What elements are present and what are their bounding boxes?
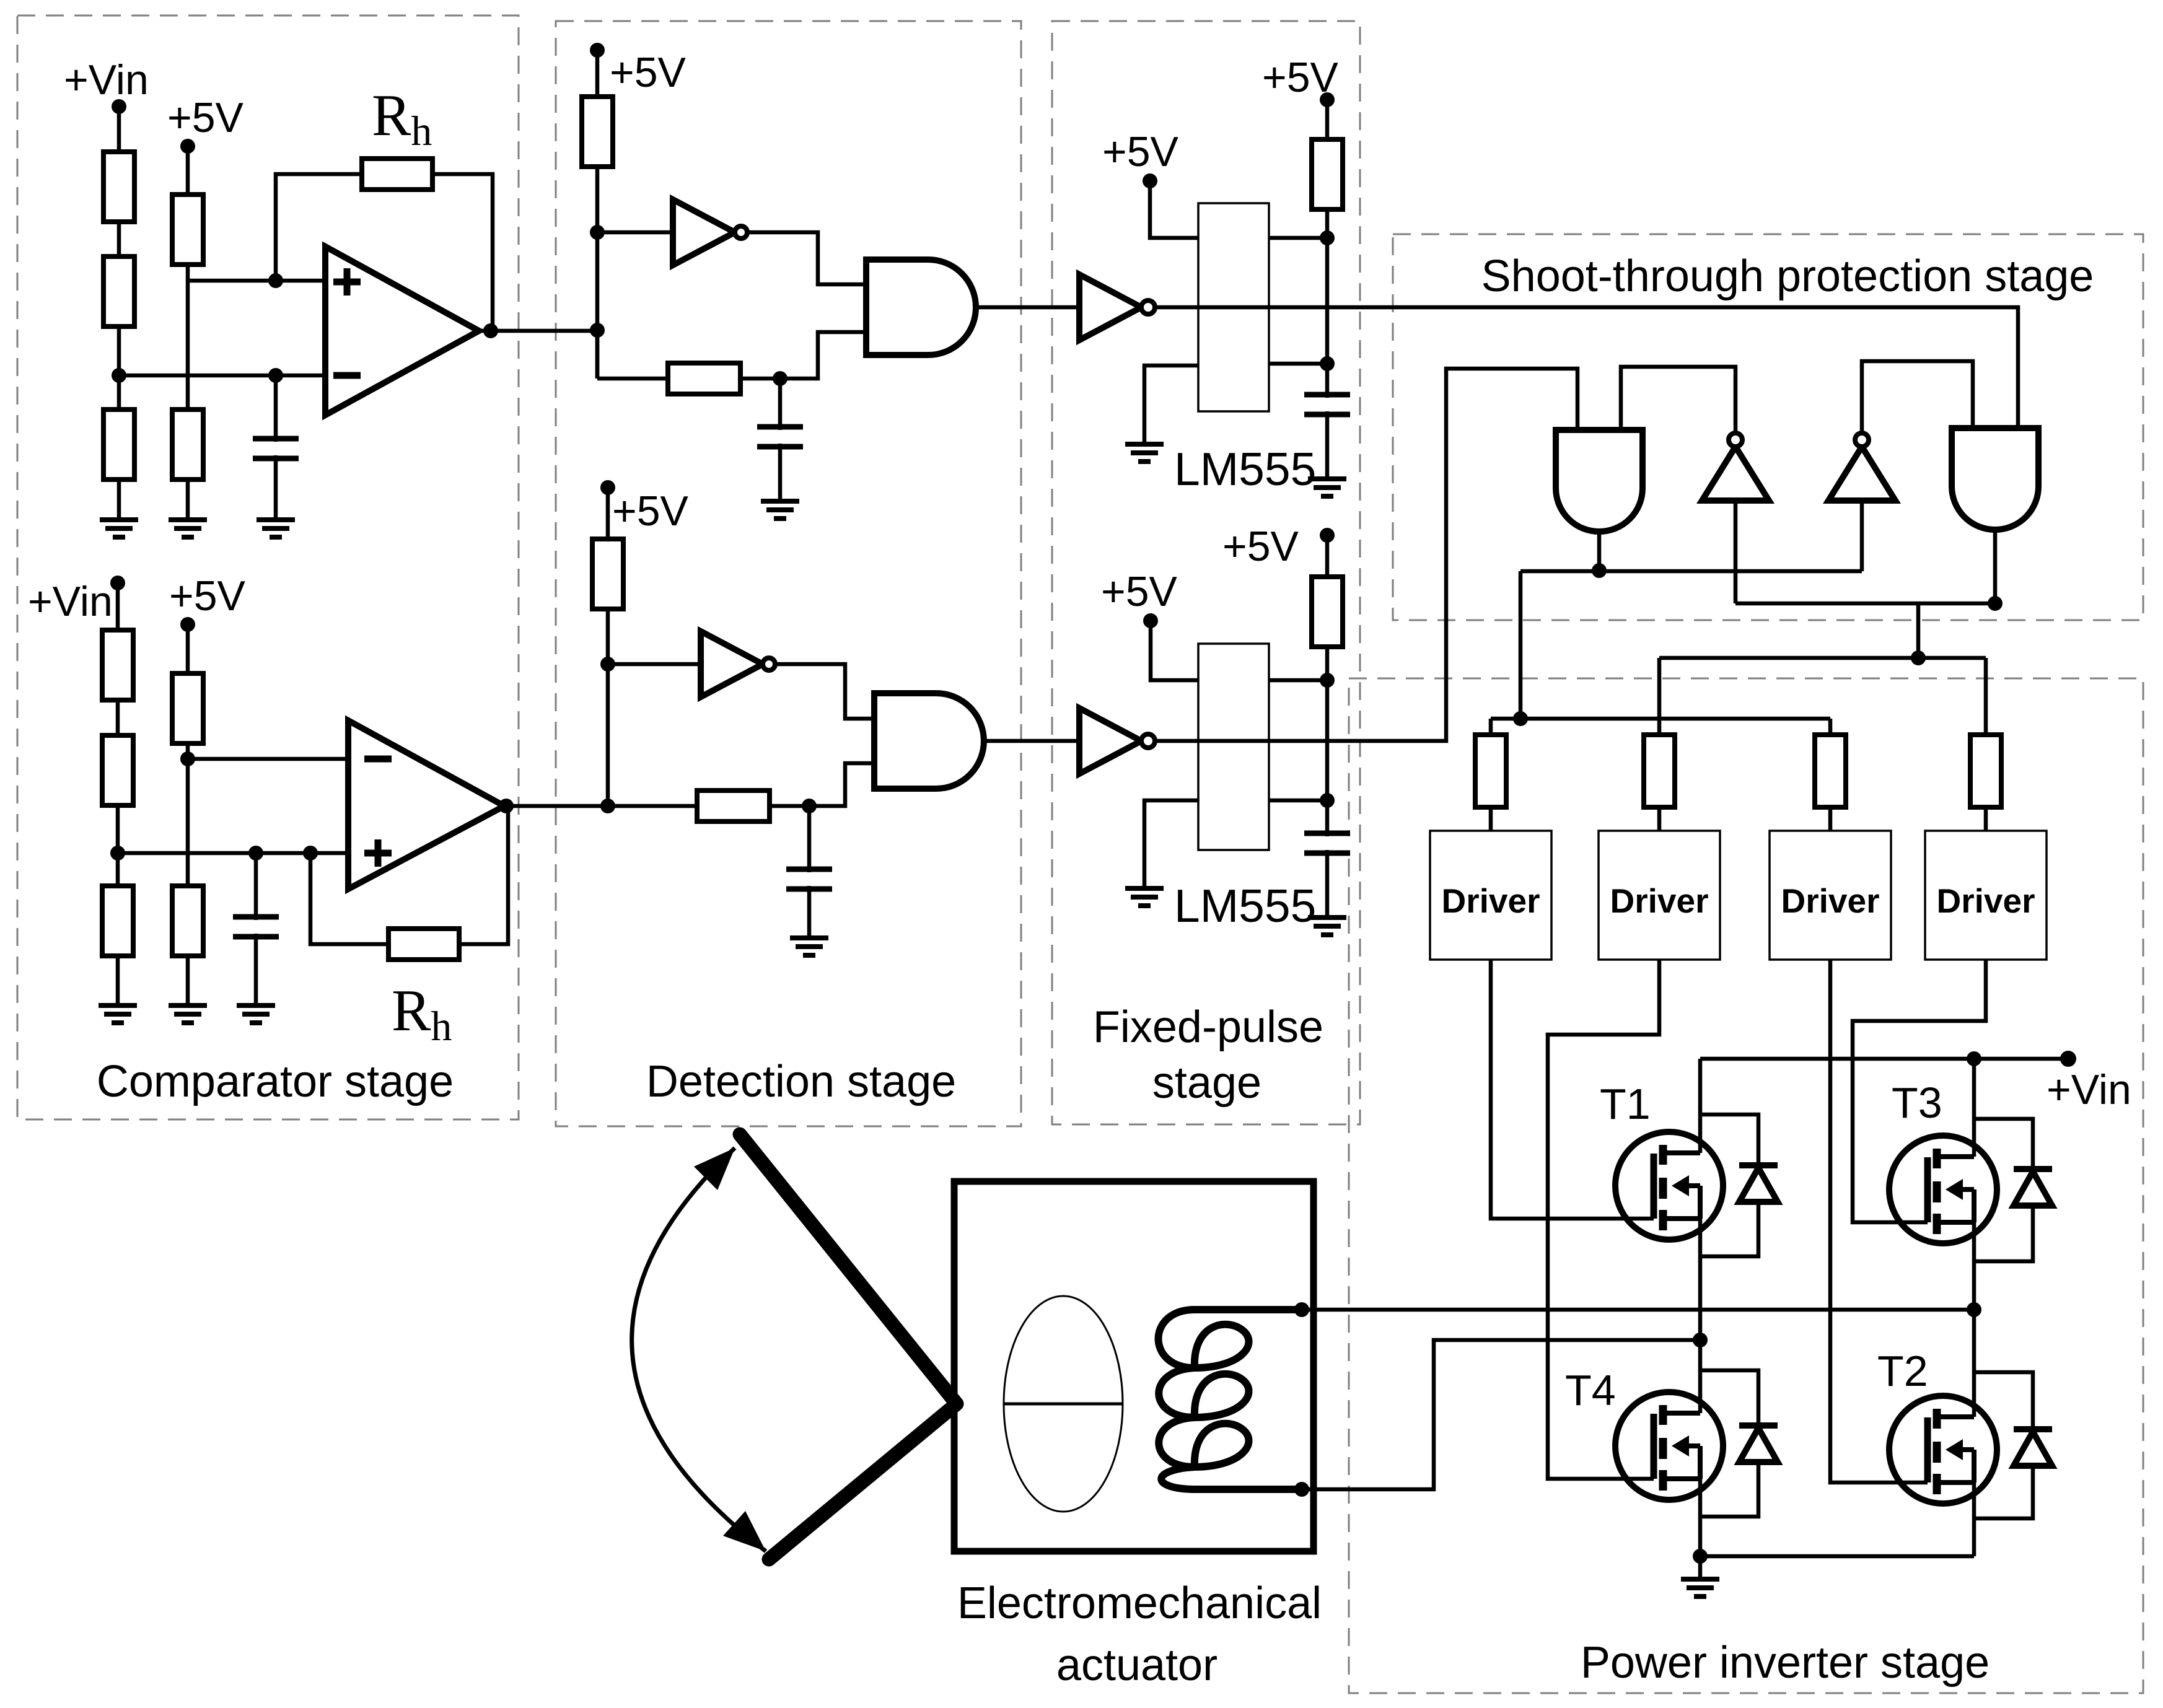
wire U2 output to detection stage	[499, 799, 608, 813]
capacitor (LM555 ch1 timing)	[1301, 398, 1354, 411]
ground (C1)	[257, 520, 295, 537]
wire +Vin rail	[1700, 1051, 2076, 1067]
driver 3 box	[1770, 831, 1891, 960]
diode (T3 body)	[1974, 1119, 2052, 1261]
AND gate 2 (shoot-through)	[1952, 428, 2038, 530]
arrowhead top	[694, 1148, 735, 1190]
svg-text:LM555: LM555	[1174, 443, 1316, 495]
diode (T2 body)	[1974, 1372, 2052, 1518]
shoot-through protection stage dashed box	[1393, 234, 2143, 620]
wire A actuator to T3/T2 midpoint	[1302, 1308, 1974, 1312]
resistor R3	[103, 409, 134, 480]
resistor (LM555 ch2 timing)	[1312, 577, 1343, 647]
ground (R8 chain)	[99, 1005, 137, 1023]
wire U1 output to detection stage	[479, 323, 597, 338]
resistor Rh (ch1)	[362, 159, 432, 190]
wire capacitor branch (detection ch1)	[778, 379, 783, 501]
diode (T1 body)	[1700, 1115, 1778, 1256]
wire op-amp U2 inverting input	[180, 751, 348, 766]
wire inverter out to AND upper input (ch2)	[775, 664, 874, 719]
resistor (driver 4 gate)	[1970, 735, 2001, 807]
svg-text:Driver: Driver	[1442, 882, 1540, 920]
svg-text:+5V: +5V	[169, 572, 246, 620]
wire +Vin divider chain (ch2)	[116, 583, 120, 1005]
detection stage dashed box	[556, 21, 1021, 1126]
node +5V (comparator ch2)	[169, 572, 246, 632]
node +5V (detection ch2)	[600, 480, 689, 535]
op-amp U2	[348, 720, 504, 889]
inverter (fixed-pulse ch1)	[1079, 274, 1155, 340]
svg-text:+5V: +5V	[1101, 568, 1178, 615]
svg-text:+5V: +5V	[1262, 54, 1339, 101]
ground (R10 chain)	[169, 1005, 207, 1023]
coil terminal dots	[1294, 1302, 1309, 1497]
wire inverter2 output to AND2 left input	[1862, 361, 1973, 432]
driver 1 box	[1430, 831, 1551, 960]
resistor R9	[172, 673, 203, 743]
wire buffer input (ch1)	[597, 230, 673, 235]
wire +5V pull-up (detection ch2)	[600, 488, 615, 813]
node +Vin (comparator ch1)	[64, 56, 149, 114]
inverter 1 (shoot-through, up)	[1702, 433, 1769, 501]
svg-text:Power inverter stage: Power inverter stage	[1581, 1638, 1990, 1688]
node +Vin (comparator ch2)	[28, 576, 125, 625]
resistor R6	[102, 630, 133, 700]
ground (detection ch2)	[790, 938, 828, 955]
wire +5V to LM555 pin (ch1)	[1150, 181, 1198, 238]
svg-text:actuator: actuator	[1056, 1640, 1218, 1690]
svg-text:LM555: LM555	[1174, 880, 1316, 932]
wire T1 source to T4 drain	[1693, 1219, 1708, 1413]
resistor (detection pull-up ch1)	[582, 97, 613, 167]
capacitor C2	[229, 920, 283, 934]
wire B actuator to T1/T4 midpoint	[1302, 1340, 1700, 1489]
wire T3 source to T2 drain	[1967, 1222, 1981, 1417]
svg-text:+5V: +5V	[167, 94, 244, 141]
wire AND1 output node to inverter2 input and gate drives 1,3	[1491, 501, 1862, 831]
svg-text:+5V: +5V	[1222, 523, 1299, 570]
node +5V (LM555 ch2 Vcc)	[1101, 568, 1178, 628]
LM555 ch2 box	[1198, 644, 1269, 850]
svg-text:+5V: +5V	[1102, 128, 1179, 175]
resistor R10	[172, 886, 203, 956]
resistor R1	[103, 152, 134, 222]
comparator stage dashed box	[17, 15, 519, 1119]
wire hysteresis feedback (ch2)	[310, 806, 508, 944]
transistor T4	[1565, 1366, 1723, 1500]
node +5V (detection ch1)	[590, 43, 687, 96]
capacitor C1	[249, 442, 302, 455]
inverter (detection ch1)	[673, 199, 747, 265]
svg-text:Driver: Driver	[1937, 882, 2035, 920]
wire filter capacitor branch (ch2)	[254, 853, 258, 1005]
diode (T4 body)	[1700, 1370, 1778, 1517]
AND gate (detection ch2)	[874, 693, 984, 789]
capacitor (detection ch1)	[753, 430, 807, 444]
resistor Rh (ch2)	[388, 929, 459, 960]
svg-text:Fixed-pulse: Fixed-pulse	[1093, 1002, 1323, 1052]
wire buffer input (ch2)	[608, 662, 701, 667]
ground (LM555 ch1 timing)	[1308, 479, 1346, 496]
wire T3 drain	[1972, 1059, 1977, 1157]
rotor ellipse	[1004, 1296, 1123, 1512]
wire driver2 output to T4 gate	[1548, 960, 1659, 1479]
electromechanical actuator box	[954, 1181, 1314, 1551]
wire capacitor branch (detection ch2)	[807, 806, 812, 938]
wire op-amp U1 non-inverting input	[188, 273, 325, 288]
driver 2 box	[1599, 831, 1720, 960]
resistor (detection series ch2)	[697, 790, 770, 821]
svg-text:Shoot-through protection stage: Shoot-through protection stage	[1481, 252, 2094, 301]
resistor (driver 3 gate)	[1815, 735, 1846, 807]
resistor (LM555 ch1 timing)	[1312, 139, 1343, 209]
ground (LM555 ch2 timing)	[1308, 918, 1346, 935]
wire +Vin divider chain (ch1)	[117, 107, 121, 520]
driver 4 box	[1925, 831, 2047, 960]
LM555 ch1 box	[1198, 203, 1269, 411]
transistor T3	[1889, 1079, 1997, 1243]
wire +5V to LM555 pin (ch2)	[1151, 621, 1198, 680]
fixed-pulse stage dashed box	[1052, 21, 1360, 1124]
capacitor (LM555 ch2 timing)	[1301, 836, 1354, 850]
resistor R2	[103, 256, 134, 326]
motion range arc	[632, 1148, 766, 1551]
wire timing network (ch1)	[1269, 100, 1335, 479]
inverter 2 (shoot-through, up)	[1828, 433, 1895, 501]
wire input to AND lower input (ch1)	[597, 330, 866, 386]
resistor R5	[172, 409, 203, 480]
wire input to AND lower input (ch2)	[608, 763, 874, 813]
node +5V (comparator ch1)	[167, 94, 244, 154]
ground (R1 chain)	[100, 520, 138, 537]
wire AND1 input B from inverter output	[1621, 367, 1735, 432]
wire +5V divider chain (ch1)	[186, 146, 190, 520]
capacitor (detection ch2)	[783, 872, 836, 886]
svg-text:Detection stage: Detection stage	[646, 1057, 956, 1106]
wire +5V pull-up (detection ch1)	[590, 50, 605, 379]
svg-text:+Vin: +Vin	[28, 578, 113, 625]
resistor (driver 2 gate)	[1644, 735, 1675, 807]
svg-text:T3: T3	[1892, 1079, 1942, 1127]
node +5V (LM555 ch1 timing)	[1262, 54, 1339, 107]
svg-text:Electromechanical: Electromechanical	[957, 1579, 1322, 1628]
transistor T1	[1600, 1080, 1723, 1240]
ground (LM555 ch1)	[1125, 444, 1164, 462]
fixed-pulse stage label	[1093, 1002, 1323, 1108]
resistor (driver 1 gate)	[1475, 735, 1506, 807]
svg-text:+5V: +5V	[612, 488, 689, 535]
actuator arm	[740, 1134, 957, 1559]
wire driver4 output to T3 gate	[1853, 960, 1986, 1222]
svg-text:T4: T4	[1565, 1366, 1616, 1414]
resistor R4	[172, 195, 203, 265]
svg-text:stage: stage	[1152, 1058, 1261, 1108]
wire driver3 output to T2 gate	[1830, 960, 1928, 1482]
node +5V (LM555 ch1 Vcc)	[1102, 128, 1179, 188]
resistor R8	[102, 886, 133, 956]
wire inverter out to AND upper input (ch1)	[747, 232, 866, 284]
wire T4 source to ground rail	[1693, 1479, 1974, 1579]
transistor T2	[1877, 1347, 1997, 1504]
inverter (fixed-pulse ch2)	[1079, 708, 1155, 774]
svg-text:T2: T2	[1877, 1347, 1928, 1395]
inverter (detection ch2)	[701, 631, 775, 697]
ground (detection ch1)	[761, 501, 799, 519]
wire T1 drain	[1698, 1059, 1703, 1153]
wire driver1 output to T1 gate	[1491, 960, 1654, 1219]
power inverter stage dashed box	[1349, 678, 2143, 1693]
wire AND output to fixed-pulse inverter (ch1)	[976, 305, 1079, 310]
wire hysteresis feedback (ch1)	[276, 174, 493, 331]
resistor (detection series ch1)	[668, 363, 740, 394]
arrowhead bottom	[723, 1511, 766, 1551]
wire timing network (ch2)	[1269, 535, 1335, 918]
wire op-amp U1 inverting input	[112, 368, 325, 383]
wire LM555 ch2 output to shoot-through AND1	[1155, 369, 1577, 741]
svg-text:+Vin: +Vin	[64, 56, 149, 103]
svg-text:T1: T1	[1600, 1080, 1651, 1128]
resistor (detection pull-up ch2)	[592, 539, 623, 609]
coil winding	[1159, 1310, 1302, 1489]
wire LM555 ground pin (ch2)	[1144, 800, 1198, 888]
svg-text:Driver: Driver	[1781, 882, 1880, 920]
svg-text:Driver: Driver	[1610, 882, 1709, 920]
wire LM555 ground pin (ch1)	[1144, 366, 1198, 444]
node +5V (LM555 ch2 timing)	[1222, 523, 1335, 570]
ground (R4 chain)	[169, 520, 207, 537]
ground (power bridge)	[1681, 1579, 1719, 1596]
AND gate (detection ch1)	[866, 260, 976, 355]
electromechanical actuator label	[957, 1579, 1322, 1690]
svg-text:+Vin: +Vin	[2047, 1066, 2131, 1113]
op-amp U1	[325, 247, 479, 415]
ground (LM555 ch2)	[1125, 888, 1164, 906]
ground (C2)	[237, 1005, 275, 1023]
wire filter capacitor branch (ch1)	[274, 375, 278, 520]
wire +5V divider chain (ch2)	[186, 624, 190, 1005]
AND gate 1 (shoot-through)	[1556, 430, 1643, 532]
wire AND2 output node to inverter1 input and gate drives 2,4	[1659, 501, 2003, 831]
wire op-amp U2 non-inverting input	[110, 846, 348, 861]
resistor R7	[102, 735, 133, 805]
svg-text:+5V: +5V	[610, 49, 687, 96]
wire AND output to fixed-pulse inverter (ch2)	[984, 739, 1079, 743]
wire LM555 ch1 output to shoot-through AND2	[1155, 307, 2018, 428]
svg-text:Comparator stage: Comparator stage	[97, 1057, 454, 1106]
